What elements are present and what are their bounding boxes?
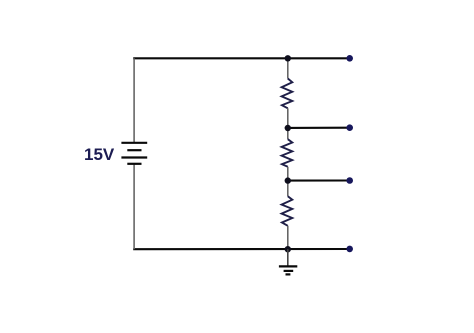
node A junction dot bbox=[285, 55, 291, 61]
wire top rail bbox=[133, 57, 349, 59]
node D junction dot (ground node) bbox=[285, 246, 291, 252]
wire R1 top lead bbox=[287, 58, 289, 78]
battery B1 plate 3 (long, +) bbox=[121, 156, 147, 158]
node C junction dot bbox=[285, 177, 291, 183]
ground bar 3 bbox=[286, 273, 291, 275]
wire left rail lower (battery - to bottom rail) bbox=[133, 164, 135, 249]
resistor R1 bbox=[282, 79, 293, 109]
resistor R3 bbox=[282, 196, 293, 226]
terminal dot 4 (bottom output) bbox=[346, 246, 353, 253]
terminal dot 2 bbox=[346, 124, 353, 131]
wire node B to terminal 2 bbox=[288, 127, 350, 129]
resistor R2 bbox=[282, 139, 293, 167]
terminal dot 3 bbox=[346, 177, 353, 184]
wire bottom rail bbox=[133, 248, 349, 250]
ground bar 2 bbox=[284, 270, 294, 272]
wire node C to terminal 3 bbox=[288, 179, 350, 181]
wire R1 bottom lead bbox=[287, 108, 289, 128]
battery B1 plate 2 (short, -) bbox=[127, 149, 141, 151]
svg-text:15V: 15V bbox=[84, 145, 115, 164]
terminal dot 1 (top output) bbox=[346, 55, 353, 62]
battery B1 plate 1 (long, +) bbox=[121, 142, 147, 144]
battery B1 plate 4 (short, -) bbox=[127, 163, 141, 165]
wire R3 bottom lead bbox=[287, 226, 289, 249]
wire R2 top lead bbox=[287, 128, 289, 139]
node B junction dot bbox=[285, 125, 291, 131]
wire left rail upper (battery + to top rail) bbox=[133, 58, 135, 143]
ground stem wire bbox=[287, 249, 289, 266]
ground bar 1 bbox=[279, 265, 297, 267]
wire R2 bottom lead bbox=[287, 167, 289, 181]
wire R3 top lead bbox=[287, 181, 289, 197]
